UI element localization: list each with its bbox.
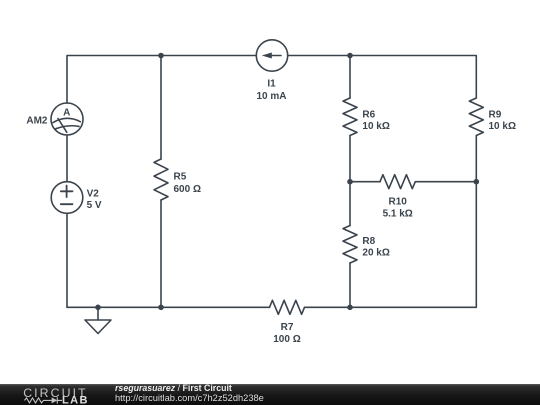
- resistor R7: [270, 300, 305, 314]
- svg-text:R10: R10: [389, 197, 408, 208]
- svg-text:R8: R8: [362, 236, 375, 247]
- svg-text:600 Ω: 600 Ω: [174, 184, 201, 195]
- svg-text:I1: I1: [267, 78, 276, 89]
- node dot bottom R8: [347, 305, 353, 311]
- svg-text:10 mA: 10 mA: [256, 91, 286, 102]
- wire top right: I1 right to R9 column: [288, 56, 477, 99]
- resistor R10: [380, 175, 415, 189]
- svg-text:V2: V2: [87, 188, 100, 199]
- wire R10 left lead: [350, 181, 380, 183]
- wire bottom left to R7: [67, 306, 270, 308]
- svg-text:R5: R5: [174, 172, 187, 183]
- svg-text:20 kΩ: 20 kΩ: [362, 248, 389, 259]
- svg-text:5 V: 5 V: [87, 200, 102, 211]
- svg-text:5.1 kΩ: 5.1 kΩ: [383, 208, 413, 219]
- logo resistor squiggle: [25, 398, 52, 403]
- arrow of I1: [262, 53, 272, 59]
- resistor R5: [154, 159, 168, 200]
- wire R10 right lead: [415, 181, 476, 183]
- ground: [85, 307, 111, 333]
- svg-text:R9: R9: [489, 109, 502, 120]
- wire R6 bottom to R8 top: [349, 136, 351, 226]
- wire R8 bottom lead: [349, 263, 351, 307]
- footer bar: [0, 384, 540, 405]
- node dot bottom R5: [158, 305, 164, 311]
- svg-text:LAB: LAB: [62, 395, 89, 405]
- wire R6 top lead: [349, 56, 351, 99]
- wire AM2 to V2: [66, 135, 68, 182]
- svg-text:R6: R6: [362, 109, 375, 120]
- svg-text:rsegurasuarez / First Circuit: rsegurasuarez / First Circuit: [115, 383, 232, 393]
- node dot R10 left: [347, 179, 353, 185]
- svg-text:100 Ω: 100 Ω: [273, 334, 300, 345]
- voltage source V2: [51, 182, 83, 214]
- svg-text:10 kΩ: 10 kΩ: [362, 121, 389, 132]
- wire R7 to bottom right corner up to R9 bottom: [305, 136, 477, 308]
- resistor R6: [343, 98, 357, 136]
- svg-text:A: A: [63, 108, 70, 119]
- wire V2 bottom to bottom-left corner: [66, 213, 68, 307]
- svg-text:10 kΩ: 10 kΩ: [489, 121, 516, 132]
- svg-text:AM2: AM2: [26, 116, 48, 127]
- resistor R9: [469, 98, 483, 136]
- logo diode: [52, 397, 58, 403]
- wire R5 column bottom: [160, 200, 162, 307]
- current source I1: [256, 40, 287, 71]
- svg-text:http://circuitlab.com/c7h2z52d: http://circuitlab.com/c7h2z52dh238e: [115, 393, 264, 403]
- node dot ground tap: [95, 305, 101, 311]
- node dot top R6: [347, 53, 353, 59]
- wire top left: node from AM2 top to I1 left: [67, 56, 256, 104]
- svg-text:R7: R7: [281, 322, 294, 333]
- wire R5 column top: [160, 56, 162, 160]
- resistor R8: [343, 226, 357, 264]
- ammeter AM2: [51, 103, 83, 135]
- node dot R10 right: [474, 179, 480, 185]
- node dot top R5: [158, 53, 164, 59]
